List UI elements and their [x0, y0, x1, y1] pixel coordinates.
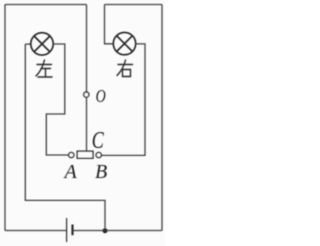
- wire left border: [4, 5, 6, 231]
- label 左 (left lamp): [36, 60, 52, 77]
- label C: [92, 127, 105, 154]
- wire O to switch C: [86, 97, 88, 151]
- wire right lamp to B terminal: [101, 44, 145, 155]
- svg-text:C: C: [92, 127, 105, 154]
- lamp left (bulb circle with X): [31, 33, 53, 55]
- wire right border: [161, 5, 163, 231]
- wire bottom left to battery: [5, 230, 66, 232]
- terminal A: [69, 152, 74, 157]
- label O: [96, 87, 106, 106]
- wire left lamp left side down to bottom junction: [25, 44, 105, 228]
- switch C sliding contact: [77, 151, 93, 158]
- svg-text:A: A: [63, 161, 78, 183]
- junction dot: [103, 228, 108, 233]
- wire lamp-left corner stub: [25, 43, 31, 45]
- label 右 (right lamp): [117, 60, 133, 77]
- wire right loop top: [105, 4, 163, 6]
- battery cell: short plate: [71, 225, 73, 236]
- wire from top down to node O: [86, 5, 88, 93]
- wire left lamp right side down with jog to A terminal: [46, 44, 68, 155]
- svg-text:O: O: [96, 87, 106, 106]
- battery cell: long plate: [66, 218, 68, 242]
- wire left loop top: [5, 4, 87, 6]
- node O: [84, 92, 89, 97]
- svg-text:B: B: [95, 161, 107, 183]
- lamp right (bulb circle with X): [113, 32, 135, 54]
- wire battery to bottom right: [74, 230, 163, 232]
- terminal B: [96, 152, 101, 157]
- wire top to right lamp: [105, 5, 114, 44]
